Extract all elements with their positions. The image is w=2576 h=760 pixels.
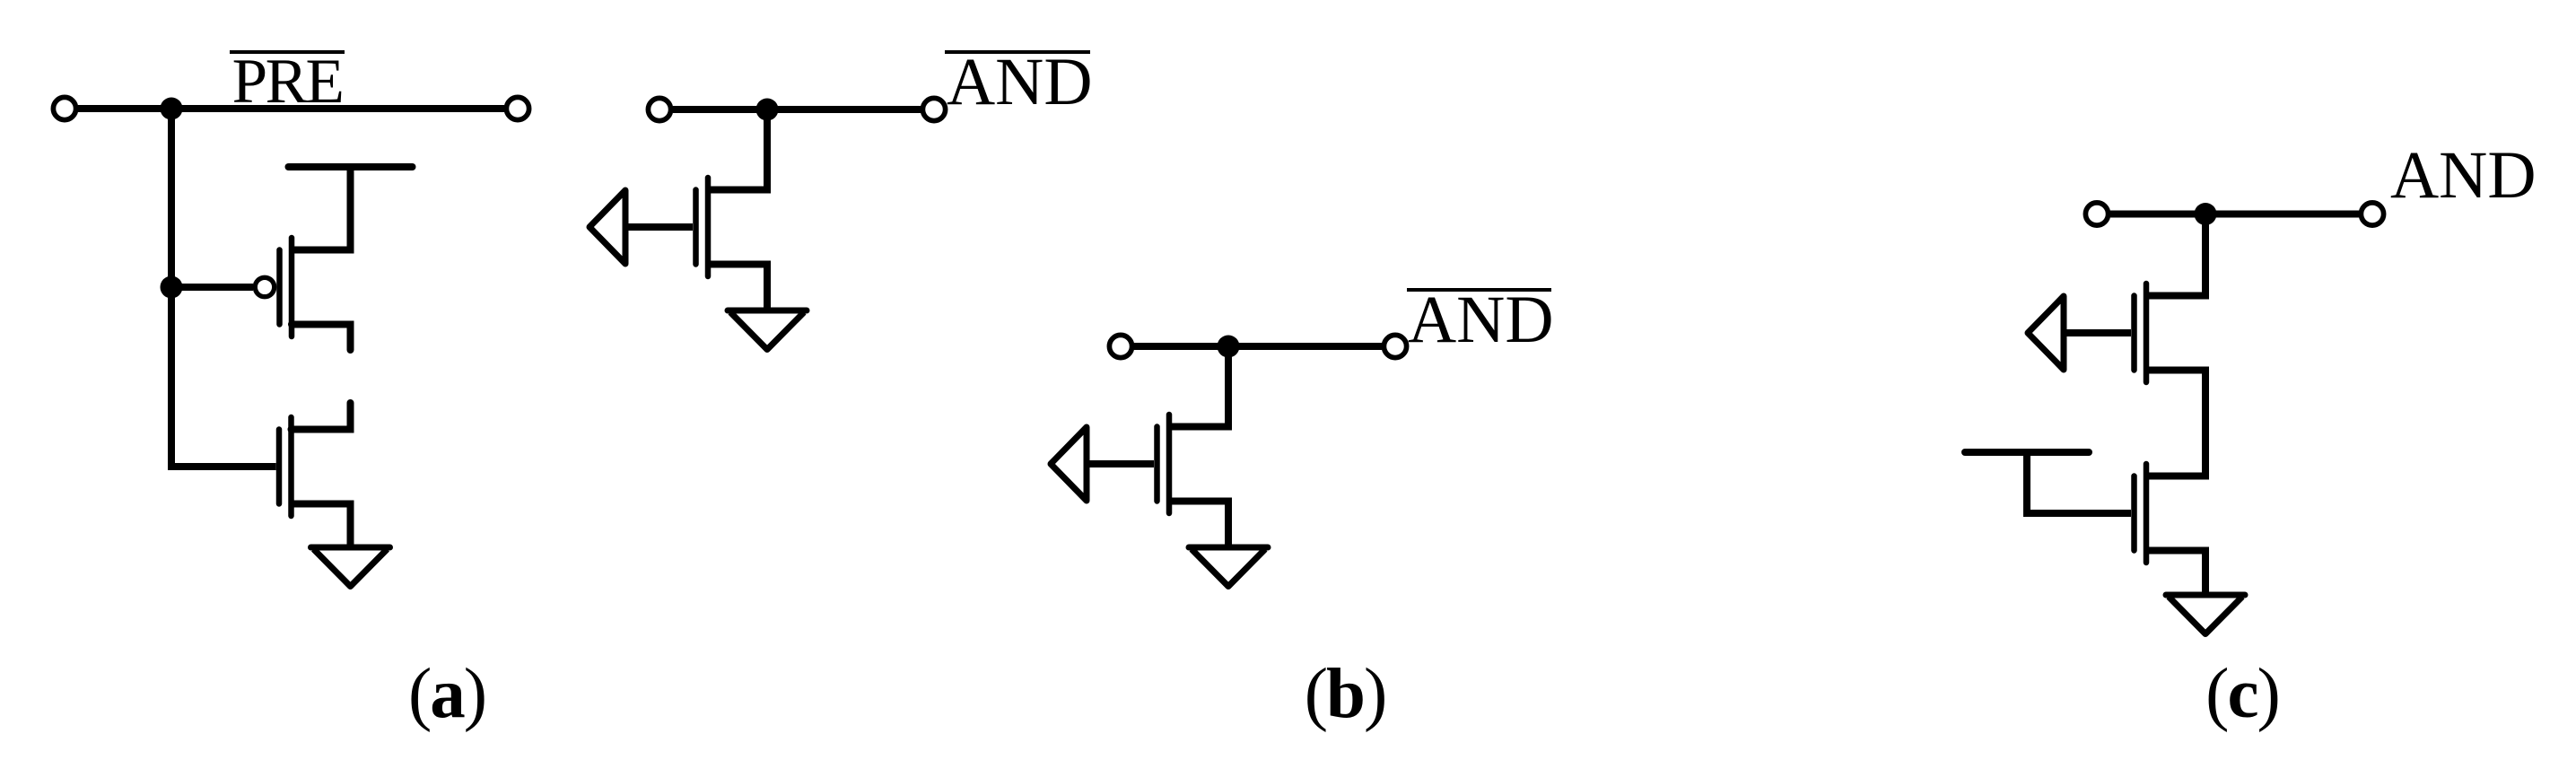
terminal left of PRE rail [53,97,75,119]
transistor Q5 NMOS gate bar [2131,296,2137,371]
transistor Q3 NMOS channel bar [705,178,712,276]
wire Q1 drain stub [292,325,351,351]
wire Q6 source to ground [2146,551,2205,596]
terminal left b2 [1109,335,1131,357]
input arrow b2 [1051,427,1087,501]
wire vertical bus down to NMOS gate [171,109,276,467]
ground of figure a [311,547,390,587]
junction b2 [1218,336,1240,358]
input arrow b1 [589,190,625,264]
wire Q3 gate [625,223,693,231]
terminal left b1 [648,98,670,120]
terminal right c [2361,203,2383,225]
transistor Q2 NMOS gate bar [276,430,283,504]
transistor Q5 NMOS channel bar [2144,284,2150,382]
wire Q4 gate [1087,460,1154,467]
svg-text:PRE: PRE [232,47,343,117]
terminal right of PRE rail [506,97,528,119]
wire Q6 gate riser [2027,452,2131,513]
transistor Q4 NMOS gate bar [1154,427,1160,502]
input bar c [1965,449,2089,456]
svg-text:(a): (a) [408,655,485,733]
wire Q4 source to ground [1169,502,1228,548]
label AND overline b1 [945,50,1090,54]
ground c [2166,595,2245,634]
wire Q5 gate [2064,329,2131,336]
wire Q4 drain connection [1169,346,1228,427]
transistor Q1 PMOS gate bar [276,250,283,325]
wire Q3 drain connection [708,109,767,190]
wire AND rail c [2110,211,2359,218]
svg-text:AND: AND [1408,283,1554,357]
junction c [2195,203,2217,225]
wire to PMOS gate bubble [171,284,253,291]
transistor Q6 NMOS gate bar [2131,476,2137,551]
wire Q3 source to ground [708,265,767,311]
ground b2 [1189,547,1268,587]
svg-text:AND: AND [2390,138,2537,213]
junction on PRE rail [161,98,183,120]
transistor Q6 NMOS channel bar [2144,464,2150,563]
label AND overline b2 [1407,288,1551,292]
wire Q2 source to ground [292,504,351,548]
transistor Q2 NMOS channel bar [288,417,294,516]
svg-text:(b): (b) [1305,655,1386,733]
wire Q5 drain connection [2146,214,2205,296]
junction at PMOS gate tap [161,276,183,299]
svg-text:AND: AND [947,45,1093,119]
wire PRE rail [78,105,504,112]
transistor Q1 PMOS channel bar [289,238,295,336]
terminal left c [2085,203,2108,225]
transistor Q3 NMOS gate bar [693,190,699,265]
transistor Q4 NMOS channel bar [1166,415,1173,513]
wire Q1 source lead to VDD [292,167,351,250]
wire Q2 drain stub [292,403,351,430]
transistor Q1 PMOS gate bubble [255,277,274,296]
input arrow c [2028,296,2064,370]
wire Q5 source to Q6 drain [2146,371,2205,476]
svg-text:(c): (c) [2205,655,2279,733]
power bar VDD [289,163,413,170]
wire nAND rail b2 [1134,343,1382,350]
terminal right b1 [922,98,945,120]
ground b1 [728,310,807,350]
wire AND rail b1 [673,106,921,113]
label PRE overline [230,50,345,54]
terminal right b2 [1384,335,1406,357]
junction b1 [756,99,779,121]
